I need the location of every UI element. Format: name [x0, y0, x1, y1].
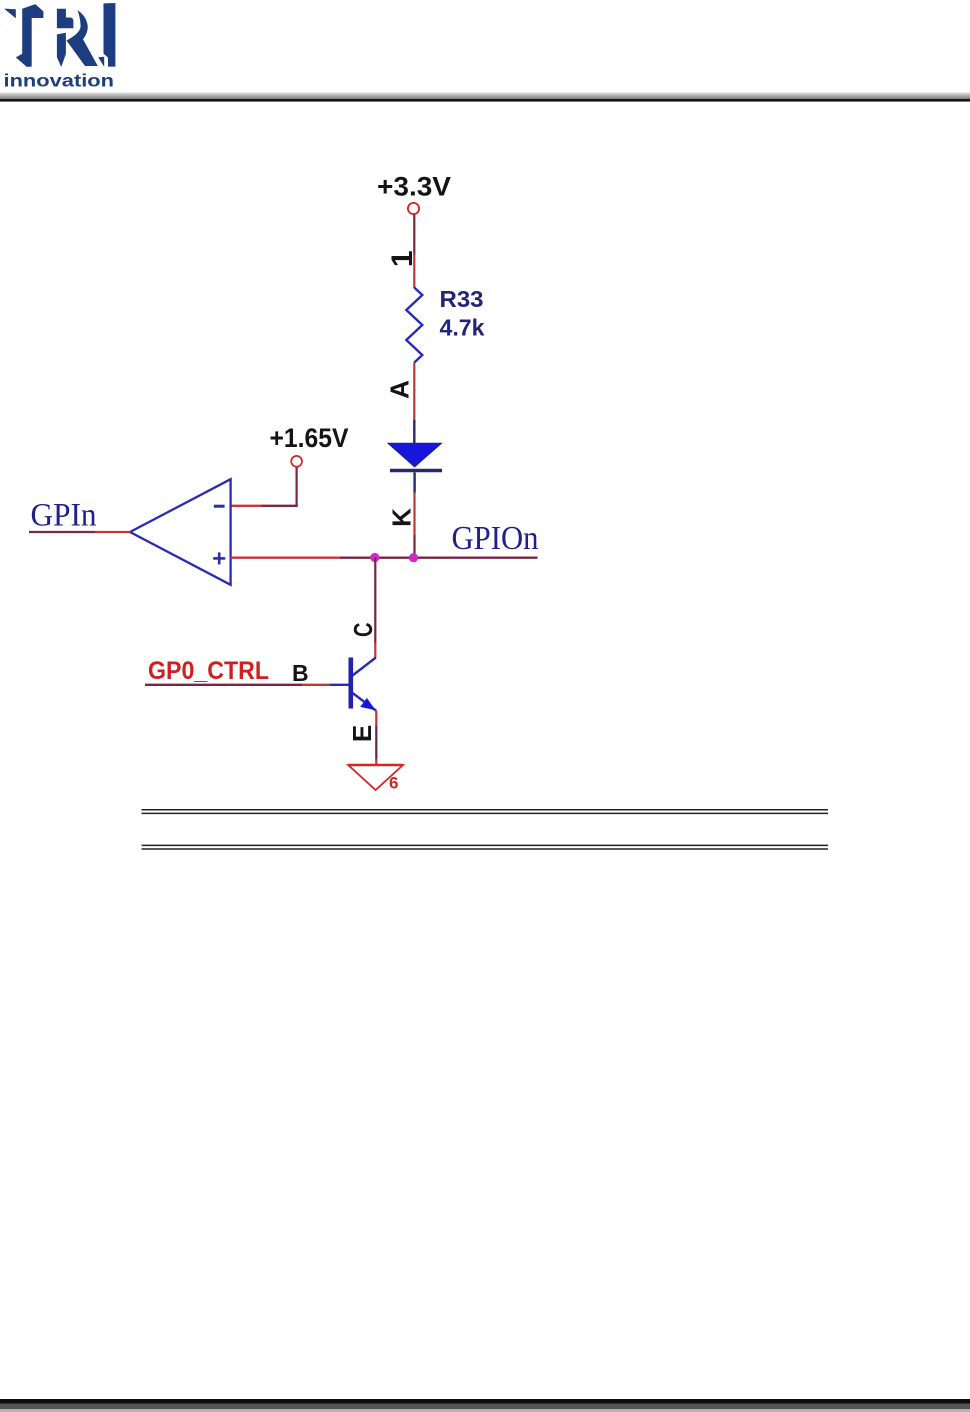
transistor Q1 collector lead [353, 658, 376, 676]
svg-text:1: 1 [386, 250, 419, 267]
svg-text:E: E [347, 725, 377, 742]
svg-text:K: K [387, 508, 417, 527]
wire node to collector [374, 558, 376, 644]
svg-text:4.7k: 4.7k [440, 315, 485, 341]
logo TRI: letter R bowl and leg [67, 10, 98, 66]
footer light grey bar [0, 1409, 970, 1412]
wire op-amp plus output to GPIOn [231, 557, 340, 559]
diode D1 cathode bar [390, 469, 442, 473]
wire +1.65V down [296, 468, 298, 506]
wire GP0_CTRL to base [145, 684, 302, 686]
op-amp U1 plus sign [213, 557, 225, 560]
diode D1 anode lead [413, 420, 415, 444]
wire op-amp minus input [231, 505, 262, 507]
power terminal +3.3V [408, 203, 419, 214]
wire resistor to diode [413, 363, 415, 421]
transistor Q1 emitter arrow [360, 698, 375, 710]
header rule black line [0, 99, 970, 102]
logo TRI: letter T flag [4, 3, 116, 91]
footer dark grey bar [0, 1404, 970, 1410]
diode D1 cathode lead [413, 472, 415, 492]
power terminal +1.65V [291, 456, 302, 467]
logo TRI: letter I [104, 3, 116, 67]
resistor R33 [406, 288, 422, 363]
junction node dot right [409, 553, 418, 562]
svg-text:C: C [348, 622, 378, 637]
svg-text:+1.65V: +1.65V [270, 423, 349, 453]
junction node dot left [370, 553, 379, 562]
logo TRI: letter R stem lower [57, 33, 66, 67]
logo TRI: letter I foot [98, 57, 104, 67]
svg-text:GPIOn: GPIOn [452, 520, 539, 557]
wire GPIn input [29, 531, 95, 533]
separator double rule lower [142, 845, 829, 849]
ground [348, 765, 403, 790]
svg-text:B: B [292, 660, 309, 686]
transistor Q1 base bar [348, 658, 353, 709]
separator double rule upper [142, 810, 829, 814]
wire +3.3V to resistor [413, 215, 415, 255]
svg-text:innovation: innovation [4, 71, 114, 91]
svg-text:GPIn: GPIn [31, 498, 97, 534]
wire emitter to ground [375, 711, 377, 726]
op-amp U1 [130, 479, 231, 585]
svg-text:6: 6 [389, 774, 398, 793]
svg-text:GP0_CTRL: GP0_CTRL [148, 657, 269, 685]
footer black line [0, 1399, 970, 1404]
logo TRI: letter T [16, 4, 44, 67]
svg-text:R33: R33 [440, 286, 484, 312]
transistor Q1 emitter lead [353, 693, 377, 711]
transistor Q1 base lead [330, 684, 349, 686]
op-amp U1 minus sign [214, 505, 225, 508]
svg-text:A: A [385, 380, 415, 399]
svg-text:+3.3V: +3.3V [377, 172, 451, 202]
logo TRI: letter R stem upper [57, 9, 74, 29]
diode D1 triangle [388, 443, 442, 467]
wire diode to node [413, 493, 415, 536]
